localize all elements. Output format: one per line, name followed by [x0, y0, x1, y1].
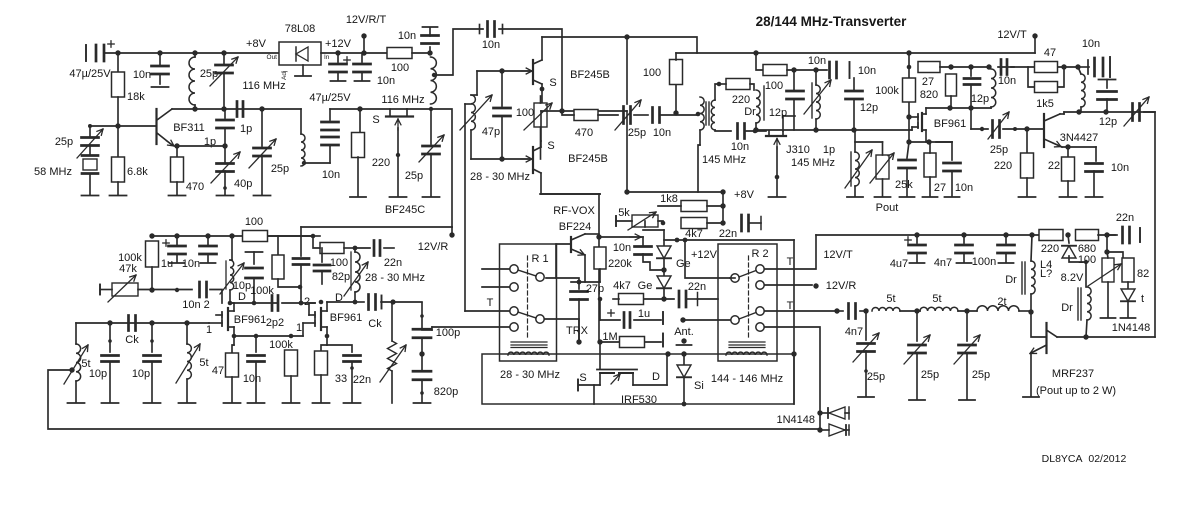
node y192 left: [624, 189, 629, 194]
1u plus: [608, 310, 614, 316]
svg-text:5t: 5t: [886, 293, 895, 305]
node y129 x982: [980, 127, 984, 131]
svg-text:R 2: R 2: [751, 248, 768, 260]
relay R2 contact 6: [756, 323, 764, 331]
wire Si top stub: [683, 354, 685, 366]
wire 1u bottom: [176, 254, 178, 262]
capacitor 2p2: [272, 296, 278, 311]
label Ck first: [125, 334, 139, 346]
terminal Ck second: [381, 296, 383, 309]
svg-text:1N4148: 1N4148: [776, 414, 815, 426]
wire 220t bottom: [1026, 178, 1028, 196]
wire 10p2 stub: [151, 323, 153, 352]
diode Ge2: [657, 276, 671, 288]
wire ft cap stub top: [429, 47, 431, 53]
label 10n mixer2: [653, 127, 671, 139]
diode Si: [677, 365, 691, 377]
svg-text:10n: 10n: [1082, 38, 1100, 50]
label +12V: [325, 38, 352, 50]
label R 2: [751, 248, 768, 260]
node 5t tap: [69, 367, 74, 372]
label 10p second: [132, 368, 150, 380]
node between diodes: [661, 267, 666, 272]
label MRF237: [1052, 368, 1094, 380]
svg-text:820p: 820p: [434, 386, 458, 398]
svg-text:R 1: R 1: [531, 253, 548, 265]
svg-text:47µ/25V: 47µ/25V: [69, 68, 111, 80]
label 10n left: [182, 258, 200, 270]
wire ge2 bottom: [663, 288, 665, 299]
svg-text:IRF530: IRF530: [621, 394, 657, 406]
capacitor 1u left: [169, 246, 186, 254]
wire 1k8 right: [707, 205, 723, 207]
wire res100v top: [675, 53, 677, 60]
wire 5k to 4k7: [658, 221, 663, 223]
svg-text:10n: 10n: [808, 55, 826, 67]
terminal bar 22n out: [1139, 228, 1141, 242]
wire 25p3 stub: [430, 108, 432, 144]
node drain1: [228, 301, 233, 306]
transistor BF961 second: [303, 302, 327, 336]
BF245B2 gate arrow: [521, 156, 532, 162]
wire 4n7 in: [837, 310, 843, 312]
potentiometer 47k: [112, 283, 138, 296]
wire 5t2 top: [186, 323, 188, 344]
label 22n vox: [719, 228, 737, 240]
label 100 zener: [1078, 254, 1096, 266]
svg-text:10n: 10n: [322, 169, 340, 181]
wire tank bottom: [471, 158, 529, 160]
variable inductor arrow: [804, 80, 831, 114]
label 100 second ch: [330, 257, 348, 269]
wire x909 vert upper: [908, 53, 910, 78]
relay R1 box: [500, 244, 557, 361]
wire 82 bottom: [1127, 282, 1129, 290]
transistor IRF530: [579, 370, 667, 386]
trimmer capacitor 25p out2: [909, 345, 926, 353]
svg-text:100: 100: [1078, 254, 1096, 266]
node coil bottom: [429, 107, 433, 111]
label L4: [1040, 259, 1052, 271]
3N4427 emitter arrow: [1053, 142, 1061, 147]
resistor 100 rail2: [243, 231, 268, 242]
wire 25p3 bottom: [430, 154, 432, 196]
node 4k7 y240: [675, 238, 680, 243]
capacitor 10n drive: [1001, 60, 1007, 75]
label 10n out: [808, 55, 826, 67]
capacitor 10n rail: [354, 64, 371, 72]
capacitor 10p first: [102, 356, 119, 362]
wire +8V down: [722, 192, 724, 223]
svg-text:1M: 1M: [602, 331, 617, 343]
1u plus left: [163, 240, 169, 246]
ground pot100: [1101, 317, 1116, 319]
label 78L08: [285, 23, 316, 35]
svg-text:BF311: BF311: [173, 122, 205, 134]
wire pot100 bottom: [1107, 282, 1109, 317]
PA section box: [482, 354, 794, 404]
node y108 x950: [947, 105, 952, 110]
node rail2 x177: [174, 233, 179, 238]
label +12V relay: [691, 249, 718, 261]
node rail x1068: [1065, 232, 1070, 237]
node lp3: [964, 308, 969, 313]
node 10p1 tick: [108, 339, 112, 343]
wire L1 top lead: [194, 53, 196, 57]
wire 100p out: [422, 329, 432, 331]
svg-text:MRF237: MRF237: [1052, 368, 1094, 380]
wire link top: [300, 109, 302, 134]
node tank bottom: [499, 156, 504, 161]
label 25p out1: [867, 371, 885, 383]
capacitor 10n left: [200, 246, 217, 254]
wire 5k wiper net: [644, 221, 646, 227]
label 680: [1078, 243, 1096, 255]
relay R2 blade 1: [739, 271, 756, 278]
wire trimmer2 to crystal: [89, 145, 91, 155]
ground 10p1: [102, 402, 119, 404]
node diode top: [817, 410, 822, 415]
trimmer 25p2 arrow: [249, 139, 276, 168]
label In: [324, 54, 330, 61]
wire ge net top: [663, 230, 665, 247]
ground 1u left: [170, 262, 185, 264]
capacitor 4u7: [909, 245, 926, 253]
wire 10p1 stub: [109, 323, 111, 352]
relay R1 blade 1: [518, 270, 536, 276]
relay R1 contact 1: [510, 265, 518, 273]
label 220k: [608, 258, 632, 270]
label 10n: [133, 69, 151, 81]
relay R2 coil: [726, 352, 767, 355]
resistor 220k: [594, 247, 606, 269]
wire y84 to res100h: [719, 83, 726, 85]
transistor J310 JFET: [766, 131, 786, 136]
svg-text:10n 2: 10n 2: [182, 299, 210, 311]
label 25k: [895, 179, 913, 191]
svg-text:4n7: 4n7: [845, 326, 863, 338]
wire y67 caps: [940, 66, 989, 68]
node cap 100k: [252, 301, 257, 306]
ground tr967: [959, 399, 975, 401]
capacitor 10n mixer2: [653, 108, 660, 123]
wire 100k2 bottom: [278, 279, 300, 287]
node coil tap: [432, 73, 436, 77]
capacitor 10n: [152, 66, 169, 74]
label BF961 second: [330, 312, 362, 324]
ground J310 gate: [769, 196, 786, 198]
node ge bottom: [661, 296, 666, 301]
label 100k left: [118, 252, 142, 264]
label 47 source: [212, 365, 224, 377]
wire BF245C gate: [397, 128, 399, 196]
wire lp gap: [900, 310, 920, 312]
wire varind top: [815, 70, 817, 85]
label D IRF530: [652, 371, 660, 383]
wire 22n ch2 right: [384, 247, 394, 249]
wire 1M right: [645, 341, 661, 343]
wire ecap2 mid: [337, 72, 339, 80]
label TRX: [566, 325, 589, 337]
svg-text:1k5: 1k5: [1036, 98, 1054, 110]
svg-text:2p2: 2p2: [266, 317, 284, 329]
label 47u/25V third: [0, 0, 1, 1]
node drain2: [353, 300, 358, 305]
wire 4u7 stub: [916, 235, 918, 243]
wire 470m right: [598, 114, 618, 116]
label 10n source: [243, 373, 261, 385]
label 25p trimmer: [200, 68, 218, 80]
wire 1k5 leads: [1058, 67, 1064, 87]
capacitor 12p double: [964, 79, 980, 85]
svg-text:28/144 MHz-Transverter: 28/144 MHz-Transverter: [756, 14, 908, 29]
resistor 47: [1035, 62, 1058, 73]
node 47u tap: [357, 106, 362, 111]
wire c10n gnd: [951, 171, 953, 196]
node 10p2 tick: [150, 339, 154, 343]
wire tap wire: [304, 162, 330, 164]
ground gate: [390, 196, 407, 198]
wire base: [90, 125, 156, 127]
wire rail to osc node: [412, 52, 430, 54]
capacitor C1 47u/25V terminal bar: [85, 45, 87, 61]
footer DL8YCA: [1042, 453, 1127, 465]
label T R1: [487, 297, 494, 309]
node 820p tick: [420, 391, 424, 395]
svg-text:8.2V: 8.2V: [1061, 272, 1084, 284]
label 10n ft: [398, 30, 416, 42]
svg-text:Ck: Ck: [368, 318, 382, 330]
variable ind 2 arrow: [344, 262, 368, 296]
wire 2p2 right: [282, 302, 315, 304]
wire x972 down: [970, 108, 972, 129]
wire signal y323: [76, 322, 209, 324]
svg-text:220k: 220k: [608, 258, 632, 270]
wire Dr bottom: [755, 123, 757, 130]
svg-text:100n: 100n: [972, 256, 996, 268]
svg-text:10n: 10n: [731, 141, 749, 153]
node 820 top: [948, 64, 953, 69]
svg-text:1p: 1p: [823, 144, 835, 156]
svg-text:5t: 5t: [81, 358, 90, 370]
label Adj: [281, 71, 288, 80]
wire BF224 emitter: [584, 255, 586, 282]
label BF224: [559, 221, 591, 233]
wire diode t bottom: [1127, 301, 1129, 317]
inductor osc link: [301, 134, 305, 166]
node y282: [577, 280, 582, 285]
svg-text:4n7: 4n7: [934, 257, 952, 269]
ground 5t1: [68, 402, 85, 404]
svg-text:RF-VOX: RF-VOX: [553, 205, 595, 217]
label +8V vox: [734, 189, 755, 201]
resistor 33: [315, 351, 328, 375]
node 12V/R/T terminal: [361, 33, 366, 38]
svg-text:Ge: Ge: [676, 258, 691, 270]
wire 12VT rail: [816, 234, 1039, 236]
ground 47 source: [224, 402, 241, 404]
svg-text:Si: Si: [694, 380, 704, 392]
wire 220 top: [359, 109, 361, 133]
svg-text:t: t: [1141, 293, 1144, 305]
svg-text:144 - 146 MHz: 144 - 146 MHz: [711, 373, 783, 385]
svg-text:10n: 10n: [613, 242, 631, 254]
label Out: [267, 54, 278, 61]
svg-text:58 MHz: 58 MHz: [34, 166, 72, 178]
wire T1 prim bottom: [699, 130, 701, 145]
ecap2 +: [344, 57, 350, 63]
svg-text:25p: 25p: [628, 127, 646, 139]
label 25p second: [271, 163, 289, 175]
label 10n mixer: [482, 39, 500, 51]
wire prim return: [698, 145, 700, 192]
inductor 5t2 arrow: [176, 344, 200, 383]
wire 12VR stub: [451, 227, 453, 235]
variable inductor ch2 core: [350, 252, 352, 290]
wire 100k left bottom: [151, 267, 153, 290]
wire c10n stub: [951, 142, 953, 160]
ground tr917: [909, 399, 925, 401]
label 1u: [638, 308, 650, 320]
capacitor Ck first: [129, 316, 136, 331]
svg-text:47p: 47p: [482, 126, 500, 138]
label 10n stack: [322, 169, 340, 181]
wire 10n em stub: [1095, 147, 1097, 161]
svg-text:220: 220: [372, 157, 390, 169]
label 116 MHz: [242, 80, 285, 92]
wire tank left2: [471, 94, 477, 96]
resistor 47 source: [226, 353, 239, 377]
wire R2 out4 RX: [765, 327, 820, 430]
svg-text:10n: 10n: [243, 373, 261, 385]
node 2p2 out: [299, 301, 304, 306]
wire bf245b2 drain up: [540, 111, 542, 141]
transformer L4 core: [1022, 262, 1025, 294]
relay R1 coil: [508, 352, 549, 355]
svg-text:10p: 10p: [233, 280, 251, 292]
wire 10n src stub: [255, 336, 257, 352]
wire 5t1 gnd: [75, 381, 77, 402]
trimmer 25p drive arrow: [988, 112, 1009, 139]
wire y67 right: [998, 66, 1014, 68]
relay R2 contact 4: [756, 281, 764, 289]
capacitor 10p drain: [246, 268, 263, 278]
inductor buffer tank: [431, 57, 437, 104]
node Si bottom: [682, 402, 687, 407]
svg-text:27: 27: [934, 182, 946, 194]
wire ft cap to bar: [429, 28, 431, 36]
node diode bottom: [817, 427, 822, 432]
svg-text:+8V: +8V: [246, 38, 267, 50]
ground below 25p2: [254, 195, 271, 197]
variable inductor pout arrow: [845, 150, 872, 188]
wire L1 bottom lead: [194, 105, 196, 109]
relay R1 contact 3: [510, 307, 518, 315]
wire R2 out1 12VT: [765, 235, 816, 269]
node y130 x854: [851, 127, 856, 132]
label 2p2: [266, 317, 284, 329]
ground 4n7b: [957, 262, 972, 264]
wire pot25k bottom: [882, 179, 884, 196]
svg-text:1k8: 1k8: [660, 193, 678, 205]
terminal bar ft cap: [423, 26, 438, 28]
wire 40p stub: [224, 146, 226, 162]
resistor 1M: [620, 337, 645, 348]
node box x668: [665, 351, 670, 356]
IRF530 arrow: [611, 374, 620, 384]
node rail ecap2: [335, 50, 340, 55]
inductor 5t output: [872, 308, 900, 312]
svg-text:47: 47: [1044, 47, 1056, 59]
node y108 x972: [968, 105, 973, 110]
svg-text:6.8k: 6.8k: [127, 166, 148, 178]
node Ant: [681, 338, 686, 343]
wire 10n T1 right: [745, 130, 766, 132]
label 145 MHz second: [791, 157, 835, 169]
wire 18k bottom lead: [117, 97, 119, 126]
node Dr2 tap: [1084, 260, 1088, 264]
svg-text:Pout: Pout: [876, 202, 899, 214]
label 12V/R right: [826, 280, 857, 292]
potentiometer 100 bias: [1102, 258, 1114, 282]
node 10n src: [254, 334, 259, 339]
wire 12V/R/T drop: [363, 36, 365, 53]
label 144-146 MHz relay: [711, 373, 783, 385]
node box x794: [791, 351, 796, 356]
node out tick: [420, 314, 424, 318]
capacitor 10n source: [248, 356, 265, 362]
svg-text:1N4148: 1N4148: [1112, 322, 1151, 334]
label 82: [1137, 268, 1149, 280]
wire src2 to 22n: [327, 345, 352, 352]
wire cap100k bottom: [253, 278, 255, 303]
svg-text:BF224: BF224: [559, 221, 591, 233]
svg-text:12p: 12p: [971, 93, 989, 105]
wire MRF emitter: [1030, 353, 1032, 396]
label L?: [1040, 268, 1052, 280]
node sec top: [717, 82, 722, 87]
transistor BF245B second JFET: [533, 141, 541, 194]
svg-text:+12V: +12V: [325, 38, 352, 50]
svg-text:(Pout up to 2 W): (Pout up to 2 W): [1036, 385, 1116, 397]
node rail/10n: [157, 50, 162, 55]
ground 22n source: [344, 402, 361, 404]
ground below 470: [169, 195, 186, 197]
trimmer capacitor 25p out3: [959, 345, 976, 353]
potentiometer 5k: [632, 215, 658, 227]
label BF245B first: [570, 69, 610, 81]
resistor 27 second: [924, 153, 936, 177]
node Dr2 top: [1075, 64, 1080, 69]
wire pout ind gnd: [854, 186, 856, 196]
label 28-30 MHz ch2: [365, 272, 425, 284]
inductor 28-30 tank variable: [471, 95, 475, 130]
resistor 4k7 vox: [681, 218, 707, 229]
wire 10n feed lead: [1078, 66, 1089, 68]
node base/18k: [115, 123, 120, 128]
terminal bar 10n feed: [1109, 57, 1111, 77]
wire Si bottom: [683, 377, 685, 404]
capacitor 4n7: [849, 304, 856, 319]
wire 22n out lead: [1107, 234, 1115, 236]
node TRX gate: [597, 339, 602, 344]
svg-text:47: 47: [212, 365, 224, 377]
wire gate net: [477, 70, 532, 72]
capacitor 10n to mixer: [480, 22, 503, 37]
wire 18k top lead: [117, 53, 119, 72]
wire 5t2 gnd: [186, 379, 188, 402]
wire rail2b: [313, 235, 320, 237]
